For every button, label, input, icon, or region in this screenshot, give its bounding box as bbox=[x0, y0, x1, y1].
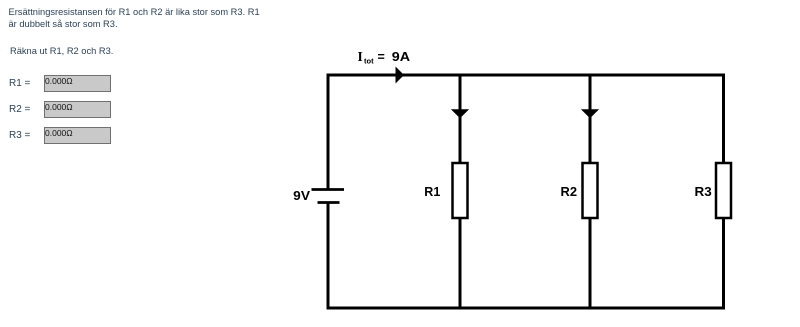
svg-text:R3: R3 bbox=[695, 185, 712, 199]
battery 9V plates bbox=[312, 190, 345, 203]
svg-text:9A: 9A bbox=[392, 50, 410, 64]
wire: left side above battery bbox=[327, 74, 330, 190]
input R3 bbox=[44, 127, 111, 144]
wire: right side below R3 bbox=[722, 219, 725, 310]
question text bbox=[9, 6, 260, 30]
wire: R1 branch below resistor bbox=[459, 219, 462, 308]
svg-text:R2: R2 bbox=[561, 185, 578, 199]
label R3 = bbox=[9, 130, 30, 141]
wire: R1 branch above resistor bbox=[459, 75, 462, 162]
label R1 = bbox=[9, 78, 30, 89]
wire: bottom bus bbox=[327, 307, 726, 310]
svg-text:tot: tot bbox=[364, 57, 374, 66]
current arrow branch R1 (down) bbox=[451, 109, 469, 118]
input R2 bbox=[44, 101, 111, 118]
resistor R1 body bbox=[453, 163, 468, 218]
wire: left side below battery bbox=[327, 203, 330, 310]
label R2 = bbox=[9, 104, 30, 115]
resistor R3 body bbox=[716, 163, 731, 218]
svg-text:R1: R1 bbox=[424, 185, 440, 199]
wire: right side above R3 bbox=[722, 74, 725, 163]
svg-text:9V: 9V bbox=[293, 189, 311, 203]
wire: top bus bbox=[327, 74, 726, 77]
svg-text:=: = bbox=[378, 50, 385, 64]
resistor R2 body bbox=[583, 163, 598, 218]
svg-text:I: I bbox=[358, 49, 363, 64]
current arrow Itot (right) bbox=[396, 67, 405, 84]
current arrow branch R2 (down) bbox=[581, 109, 599, 118]
wire: R2 branch above resistor bbox=[589, 75, 592, 162]
task text bbox=[10, 45, 113, 57]
input R1 bbox=[44, 75, 111, 92]
wire: R2 branch below resistor bbox=[589, 219, 592, 308]
